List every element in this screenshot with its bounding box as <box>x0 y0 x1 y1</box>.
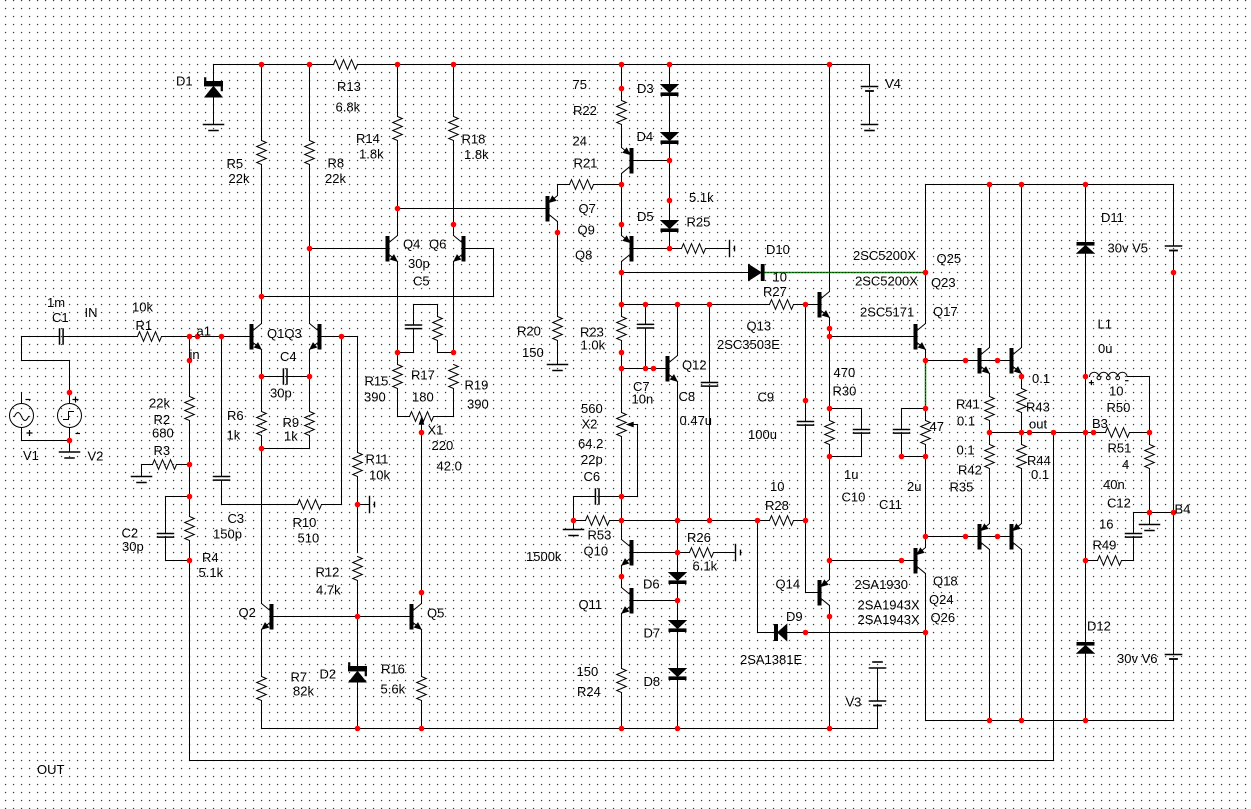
wire: Q9 base to diode chain <box>633 160 670 162</box>
transistor Q12 <box>666 357 669 382</box>
resistor R50 10 <box>1106 428 1130 438</box>
battery V5 30v <box>1173 185 1175 513</box>
capacitor C1 1m <box>60 329 64 344</box>
svg-text:24: 24 <box>573 134 587 149</box>
svg-text:in: in <box>190 347 200 362</box>
inductor L1 0u <box>1090 372 1128 376</box>
wire: D6-D8 chain column <box>677 521 679 729</box>
wire: X2 bottom to R53 node <box>621 437 623 540</box>
junction (653.5,368.5) <box>651 366 657 372</box>
wire: Q18 base row <box>830 560 915 562</box>
junction (829.5,616.5) <box>827 614 833 620</box>
svg-text:R27: R27 <box>763 284 787 299</box>
resistor R23 1.0k <box>617 317 627 341</box>
svg-text:R1: R1 <box>136 318 153 333</box>
resistor R28 10 <box>770 516 794 526</box>
svg-text:82k: 82k <box>293 684 314 699</box>
wire: Q4 collector to Q7 base row <box>398 208 547 210</box>
svg-text:2u: 2u <box>907 479 921 494</box>
wire: Q4 base row <box>310 248 387 250</box>
wire: green net D10 to driver (selected) <box>764 273 925 409</box>
junction (621.5,496.5) <box>619 494 625 500</box>
wire: R44 / Q26 column <box>1021 433 1023 721</box>
resistor R24 150 <box>617 669 627 693</box>
svg-text:2SA1943X: 2SA1943X <box>858 598 920 613</box>
svg-text:D4: D4 <box>637 129 654 144</box>
svg-text:680: 680 <box>152 426 174 441</box>
svg-text:R18: R18 <box>462 132 486 147</box>
svg-text:10: 10 <box>770 479 784 494</box>
svg-text:10: 10 <box>1109 384 1123 399</box>
svg-text:2SC5200X: 2SC5200X <box>855 274 918 289</box>
junction (189.5,360.5) <box>187 358 193 364</box>
junction (621.5,368.5) <box>619 366 625 372</box>
diode D1 (zener to ground) <box>213 65 215 125</box>
svg-text:Q4: Q4 <box>403 237 420 252</box>
svg-text:Q13: Q13 <box>747 319 772 334</box>
junction (805.5,304.5) <box>803 302 809 308</box>
capacitor C9 100u column <box>806 305 819 593</box>
svg-text:0.47u: 0.47u <box>680 413 713 428</box>
svg-text:R20: R20 <box>517 324 541 339</box>
wire: V1 to V2 bottom <box>22 440 70 442</box>
svg-text:R50: R50 <box>1107 400 1131 415</box>
svg-text:R43: R43 <box>1026 400 1050 415</box>
junction (397.5,208.5) <box>395 206 401 212</box>
wire: Q9 collector to Q8 emitter <box>621 174 623 236</box>
svg-text:D2: D2 <box>320 667 337 682</box>
svg-text:0.1: 0.1 <box>957 443 975 458</box>
junction (1085.5,432.5) <box>1083 430 1089 436</box>
svg-text:0.1: 0.1 <box>1031 467 1049 482</box>
svg-text:R15: R15 <box>365 374 389 389</box>
svg-text:R28: R28 <box>765 498 789 513</box>
junction (965.5,360.5) <box>963 358 969 364</box>
capacitor C2 30p <box>166 497 190 561</box>
svg-text:R41: R41 <box>956 397 980 412</box>
junction (709.5,304.5) <box>707 302 713 308</box>
resistor R13 6.8k (in top rail) <box>334 60 358 70</box>
svg-text:Q25: Q25 <box>937 251 962 266</box>
junction (357.5,504.5) <box>355 502 361 508</box>
svg-text:1.8k: 1.8k <box>464 147 489 162</box>
svg-text:D10: D10 <box>766 242 790 257</box>
svg-text:B3: B3 <box>1092 416 1108 431</box>
svg-text:R22: R22 <box>573 103 597 118</box>
svg-text:22k: 22k <box>229 171 250 186</box>
svg-text:Q11: Q11 <box>579 597 603 612</box>
wire: Q4 emitter / R15 column <box>397 262 399 417</box>
resistor R22 75 <box>617 101 627 125</box>
transistor Q1 <box>250 325 253 350</box>
svg-text:R11: R11 <box>366 452 389 467</box>
svg-text:R12: R12 <box>316 565 340 580</box>
resistor R42 0.1 <box>985 445 995 469</box>
resistor R35 47 <box>921 421 931 445</box>
junction (357.5,616.5) <box>355 614 361 620</box>
junction (189.5,336.5) <box>187 334 193 340</box>
source V2 (step) <box>69 393 71 441</box>
svg-text:2SA1943X: 2SA1943X <box>858 612 920 627</box>
capacitor C8 0.47u <box>709 305 711 521</box>
junction (1021.5,432.5) <box>1019 430 1025 436</box>
svg-text:22k: 22k <box>149 396 170 411</box>
ground (C6/R53 node) <box>573 521 575 530</box>
junction (621.5,224.5) <box>619 222 625 228</box>
resistor R3 (to ground) <box>142 464 190 466</box>
junction (829.5,336.5) <box>827 334 833 340</box>
resistor R11 10k <box>353 453 363 477</box>
junction (309.5,248.5) <box>307 246 313 252</box>
svg-text:L1: L1 <box>1098 317 1112 332</box>
svg-text:Q10: Q10 <box>584 544 609 559</box>
junction (997.5,536.5) <box>995 534 1001 540</box>
junction (309.5,64.5) <box>307 62 313 68</box>
svg-text:2SC5171: 2SC5171 <box>860 305 914 320</box>
resistor R18 <box>449 117 459 141</box>
svg-text:16: 16 <box>1099 517 1113 532</box>
wire: Q25/Q23 base row <box>926 360 1011 362</box>
junction (621.5,352.5) <box>619 350 625 356</box>
wire: Q11 base <box>633 600 678 602</box>
wire: R22 column <box>621 65 623 148</box>
svg-text:C6: C6 <box>584 469 601 484</box>
junction (397.5,64.5) <box>395 62 401 68</box>
svg-text:R53: R53 <box>588 528 612 543</box>
svg-text:R44: R44 <box>1027 453 1051 468</box>
wire: driver column x925 <box>925 185 927 721</box>
transistor Q8 <box>630 237 633 262</box>
transistor Q13 <box>818 293 821 318</box>
svg-text:Q24: Q24 <box>929 592 954 607</box>
svg-text:150: 150 <box>522 345 544 360</box>
svg-text:R21: R21 <box>574 156 598 171</box>
wire: positive top rail <box>214 64 870 66</box>
svg-text:D7: D7 <box>644 626 661 641</box>
battery V3 <box>877 669 879 729</box>
transistor Q23 <box>1010 349 1013 374</box>
junction (645.5,304.5) <box>643 302 649 308</box>
svg-text:5.1k: 5.1k <box>199 565 224 580</box>
wire: Q10 base <box>633 552 678 554</box>
junction (925.5,632.5) <box>923 630 929 636</box>
junction (757.5,520.5) <box>755 518 761 524</box>
svg-text:Q14: Q14 <box>776 577 801 592</box>
wire: X2 wiper loop <box>622 425 638 497</box>
capacitor stub (at R11 node) <box>358 504 370 506</box>
resistor R30 470 <box>825 421 835 445</box>
resistor R9 1k <box>305 412 315 436</box>
junction (197.5,336.5) <box>195 334 201 340</box>
wire: negative bus (left) <box>262 728 878 730</box>
svg-text:X1: X1 <box>428 423 444 438</box>
resistor R8 <box>305 141 315 165</box>
svg-text:D1: D1 <box>176 74 193 89</box>
svg-text:560: 560 <box>581 401 603 416</box>
wire: Q8 collector to VAS node <box>621 262 623 317</box>
junction (1085.5,184.5) <box>1083 182 1089 188</box>
resistor R41 0.1 <box>985 397 995 421</box>
junction (261.5,64.5) <box>259 62 265 68</box>
capacitor stub (after R26) <box>736 545 741 561</box>
junction (965.5,536.5) <box>963 534 969 540</box>
svg-text:64.2: 64.2 <box>578 436 603 451</box>
svg-text:C11: C11 <box>879 497 902 512</box>
svg-text:V4: V4 <box>885 76 901 91</box>
transistor Q18 <box>914 549 917 574</box>
junction (829.5,328.5) <box>827 326 833 332</box>
resistor R21 24 <box>570 180 594 190</box>
wire: R21 to Q9/Q8 column <box>594 184 622 186</box>
svg-text:IN: IN <box>85 305 98 320</box>
svg-text:42.0: 42.0 <box>437 459 462 474</box>
diode D3 <box>661 85 678 93</box>
svg-text:10: 10 <box>773 270 787 285</box>
junction (1085.5,720.5) <box>1083 718 1089 724</box>
junction (621.5,728.5) <box>619 726 625 732</box>
svg-text:1500k: 1500k <box>526 549 562 564</box>
svg-text:R3: R3 <box>154 443 171 458</box>
svg-text:C4: C4 <box>280 349 297 364</box>
junction (309.5,376.5) <box>307 374 313 380</box>
svg-text:30v V6: 30v V6 <box>1117 651 1157 666</box>
svg-text:4: 4 <box>1122 457 1129 472</box>
wire: R42 / Q24 column <box>989 433 991 721</box>
svg-text:Q7: Q7 <box>579 201 596 216</box>
svg-text:C5: C5 <box>413 274 430 289</box>
junction (397.5,352.5) <box>395 350 401 356</box>
junction (1021.5,720.5) <box>1019 718 1025 724</box>
wire: R10 feedback row to Q3 base <box>222 337 342 505</box>
transistor Q3 <box>318 325 321 350</box>
wire: R11 to R12 <box>357 477 359 553</box>
junction (221.5,336.5) <box>219 334 225 340</box>
svg-text:R49: R49 <box>1093 538 1117 553</box>
junction (1085.5,560.5) <box>1083 558 1089 564</box>
resistor R7 82k <box>257 677 267 701</box>
source V1 (sine) <box>21 393 23 441</box>
junction (805.5,400.5) <box>803 398 809 404</box>
junction (573.5,520.5) <box>571 518 577 524</box>
svg-text:Q17: Q17 <box>933 304 958 319</box>
svg-text:D5: D5 <box>637 209 654 224</box>
junction (1173.5,272.5) <box>1171 270 1177 276</box>
svg-text:R6: R6 <box>227 408 244 423</box>
wire: Q10 collector up <box>621 521 623 540</box>
wire: L1 to R50/R51 node <box>1127 377 1149 433</box>
wire: Q24/Q26 base row <box>926 536 1011 538</box>
wire: Q13 collector to rail <box>829 65 831 292</box>
wire: out row <box>990 432 1150 434</box>
svg-text:1k: 1k <box>284 429 298 444</box>
svg-text:D3: D3 <box>637 81 654 96</box>
wire: Q7 emitter to R21 <box>558 185 570 196</box>
junction (997.5,360.5) <box>995 358 1001 364</box>
battery V6 30v <box>1173 513 1175 721</box>
transistor Q2 <box>270 605 273 630</box>
wire: R14 column <box>397 65 399 236</box>
junction (557.5,232.5) <box>555 230 561 236</box>
junction (989.5,184.5) <box>987 182 993 188</box>
wire: R23 to X2 <box>621 341 623 413</box>
junction (1173.5,512.5) <box>1171 510 1177 516</box>
wire: Q5 emitter to R16 <box>421 630 423 729</box>
svg-text:47: 47 <box>930 419 944 434</box>
svg-text:out: out <box>1029 417 1047 432</box>
junction (261.5,376.5) <box>259 374 265 380</box>
svg-text:22k: 22k <box>325 171 346 186</box>
junction (669.5,160.5) <box>667 158 673 164</box>
svg-text:B4: B4 <box>1175 502 1191 517</box>
svg-text:R10: R10 <box>293 515 317 530</box>
junction (901.5,560.5) <box>899 558 905 564</box>
svg-text:R5: R5 <box>227 156 244 171</box>
wire: tail current column (R6 node to Q2 collector, R7, neg bus) <box>261 449 263 729</box>
junction (925.5,272.5) <box>923 270 929 276</box>
ground (R3) <box>141 465 143 477</box>
svg-text:220: 220 <box>432 438 454 453</box>
junction (341.5,336.5) <box>339 334 345 340</box>
svg-text:470: 470 <box>834 365 856 380</box>
svg-text:2SA1381E: 2SA1381E <box>740 652 802 667</box>
wire: Q11 emitter to R24 <box>621 614 623 729</box>
svg-text:1k: 1k <box>227 428 241 443</box>
svg-text:Q8: Q8 <box>575 248 592 263</box>
wire: Q10 emitter to Q11 collector <box>621 566 623 588</box>
resistor R26 6.1k <box>678 552 690 554</box>
svg-text:100u: 100u <box>748 427 777 442</box>
wire: D11/L1/D12 column <box>1085 185 1087 721</box>
potentiometer X2 <box>617 413 627 437</box>
junction (989.5,720.5) <box>987 718 993 724</box>
resistor R49 16 / capacitor C12 40n branch <box>1086 560 1098 562</box>
junction (453.5,224.5) <box>451 222 457 228</box>
wire: Q25 emitter / R41 <box>989 374 991 433</box>
wire: output stage bottom bus to V6 <box>926 720 1174 722</box>
wire: Q23 emitter / R43 <box>1021 374 1023 433</box>
diode D10 <box>749 265 762 281</box>
svg-text:C3: C3 <box>228 511 245 526</box>
capacitor C3 150p column <box>221 337 223 505</box>
wire: Q3 base to R11 <box>321 337 358 453</box>
capacitor C5 30p + series loop <box>398 305 438 353</box>
svg-text:75: 75 <box>573 77 587 92</box>
svg-text:Q26: Q26 <box>931 610 956 625</box>
junction (677.5,304.5) <box>675 302 681 308</box>
junction (925.5,360.5) <box>923 358 929 364</box>
svg-text:Q1Q3: Q1Q3 <box>267 326 302 341</box>
svg-text:R35: R35 <box>950 480 974 495</box>
junction (621.5,520.5) <box>619 518 625 524</box>
resistor R5 <box>257 141 267 165</box>
wire: Q13 emitter column / R30 <box>829 318 831 729</box>
junction (189.5,496.5) <box>187 494 193 500</box>
junction (69.5,392.5) <box>67 390 73 396</box>
capacitor C6 22p <box>574 497 622 521</box>
svg-text:R16: R16 <box>381 662 405 677</box>
junction (421.5,592.5) <box>419 590 425 596</box>
svg-text:Q6: Q6 <box>429 237 446 252</box>
svg-text:R51: R51 <box>1108 441 1132 456</box>
junction (621.5,272.5) <box>619 270 625 276</box>
junction (829.5,560.5) <box>827 558 833 564</box>
wire: VAS output row (to R27/Q13) <box>622 304 819 306</box>
capacitor C7 10n <box>645 305 647 369</box>
svg-text:R17: R17 <box>411 368 435 383</box>
diode D9 <box>775 625 778 641</box>
junction (677.5,552.5) <box>675 550 681 556</box>
diode D6 <box>669 573 686 581</box>
junction (453.5,352.5) <box>451 350 457 356</box>
wire: R18 column <box>453 65 455 236</box>
ground (under V2) <box>69 441 71 453</box>
wire: Q1 emitter / R6 column <box>261 350 263 449</box>
wire: source loop to V2 <box>22 337 70 393</box>
svg-text:1.0k: 1.0k <box>581 338 606 353</box>
junction (989.5,432.5) <box>987 430 993 436</box>
capacitor C11 2u <box>902 409 926 457</box>
diode D4 <box>661 133 678 141</box>
junction (805.5,520.5) <box>803 518 809 524</box>
svg-text:5.6k: 5.6k <box>381 682 406 697</box>
junction (189.5,560.5) <box>187 558 193 564</box>
junction (1021.5,376.5) <box>1019 374 1025 380</box>
wire: Q3 emitter / R9 column <box>262 350 310 449</box>
svg-text:390: 390 <box>467 397 489 412</box>
wire: Q6 base loop to cascode row <box>262 249 494 297</box>
svg-text:C12: C12 <box>1107 496 1131 511</box>
svg-text:R7: R7 <box>291 670 308 685</box>
transistor Q9 <box>630 149 633 174</box>
battery V4 <box>869 65 871 125</box>
junction (669.5,64.5) <box>667 62 673 68</box>
svg-text:D9: D9 <box>786 609 803 624</box>
svg-text:X2: X2 <box>582 417 598 432</box>
diode chain D3 column top <box>669 65 671 249</box>
junction (69.5,440.5) <box>67 438 73 444</box>
wire: Q6 emitter / R19 column <box>453 262 455 417</box>
svg-text:Q2: Q2 <box>239 605 256 620</box>
svg-text:R42: R42 <box>958 463 982 478</box>
svg-text:2SC3503E: 2SC3503E <box>717 337 780 352</box>
diode D8 <box>669 669 686 677</box>
svg-text:C10: C10 <box>842 490 866 505</box>
diode D7 <box>669 621 686 629</box>
wire: input from C1 to Q1 base (node a1) <box>22 336 251 338</box>
capacitor C4 30p <box>262 376 310 378</box>
junction (621.5,88.5) <box>619 86 625 92</box>
svg-text:D8: D8 <box>644 674 661 689</box>
junction (621.5,576.5) <box>619 574 625 580</box>
potentiometer X1 220 <box>398 416 454 418</box>
resistor R1 10k <box>138 332 162 342</box>
transistor Q25 <box>978 349 981 374</box>
resistor R25 5.1k <box>670 248 682 250</box>
transistor Q10 <box>630 541 633 566</box>
transistor Q7 <box>546 197 549 222</box>
svg-text:2SC5200X: 2SC5200X <box>853 248 916 263</box>
resistor R17 180 <box>433 317 443 341</box>
junction (1029.5,432.5) <box>1027 430 1033 436</box>
svg-text:V1: V1 <box>23 448 39 463</box>
junction (621.5,184.5) <box>619 182 625 188</box>
svg-text:0u: 0u <box>1098 341 1112 356</box>
junction (677.5,600.5) <box>675 598 681 604</box>
svg-text:D11: D11 <box>1101 210 1124 225</box>
svg-text:OUT: OUT <box>37 762 65 777</box>
transistor Q11 <box>630 589 633 614</box>
capacitor C10 1u <box>830 409 862 457</box>
